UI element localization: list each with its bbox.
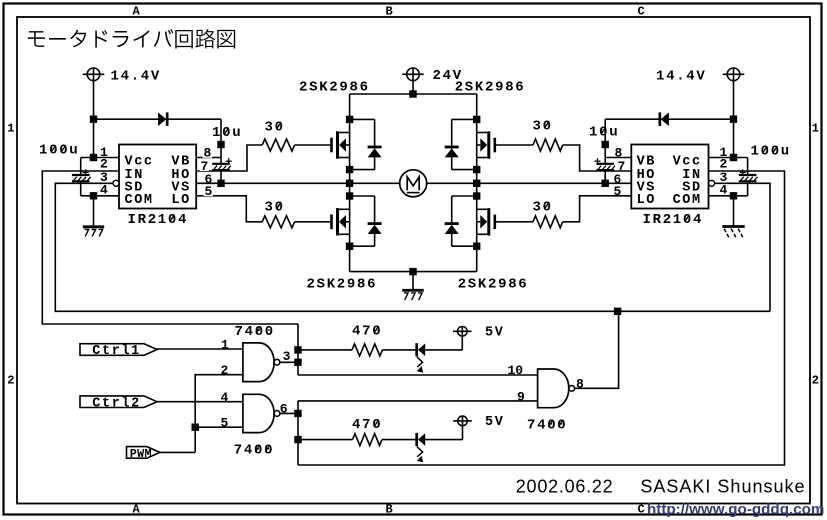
svg-text:5V: 5V: [485, 326, 505, 341]
svg-text:2SK2986: 2SK2986: [458, 277, 529, 293]
svg-text:IR2104: IR2104: [643, 212, 704, 228]
wire: LED to 5V (upper): [425, 349, 462, 351]
junction dots (all wire nodes): [90, 90, 737, 443]
svg-text:2SK2986: 2SK2986: [307, 277, 378, 293]
motor M1: [400, 170, 427, 197]
svg-text:10: 10: [508, 363, 524, 378]
label U2 IR2104: [643, 212, 704, 228]
resistor 30 (lower left gate): [262, 200, 294, 228]
svg-text:A: A: [133, 502, 141, 516]
input tag Ctrl1: [80, 344, 157, 359]
capacitor C4 100u (right): [739, 144, 791, 196]
svg-text:LO: LO: [171, 193, 190, 208]
svg-text:2: 2: [7, 374, 14, 388]
wire: HO pin7 (right) to gate resistor: [563, 145, 632, 171]
wire: Vcc pin1 (left): [81, 157, 119, 159]
wire: NAND2 node to NAND3 pin9: [298, 400, 538, 402]
wire: NAND1 output to node: [280, 361, 298, 363]
wire: Ctrl1 to NAND1 pin1: [157, 348, 243, 350]
wire: D1 cathode down to VB node: [220, 119, 222, 164]
svg-text:SASAKI Shunsuke: SASAKI Shunsuke: [640, 476, 805, 496]
svg-text:2SK2986: 2SK2986: [455, 80, 526, 96]
wire: SD pin3 (right) to SD bus: [715, 183, 770, 311]
svg-text:Vcc: Vcc: [125, 154, 154, 169]
wire: VB pin8 stub (right): [605, 157, 631, 159]
resistor 30 (upper right gate): [533, 118, 563, 151]
nand gate U3C 7400 (output): [538, 369, 575, 408]
title text モータドライバ回路図: [28, 29, 235, 48]
wire: NAND2 node vertical: [297, 401, 299, 465]
wire: NAND1 pin2 from PWM bus: [195, 375, 243, 453]
wire: C2 bottom to VS line: [220, 170, 222, 183]
svg-text:7400: 7400: [234, 442, 274, 458]
svg-text:30: 30: [533, 200, 553, 216]
wire: Vcc pin1 (right): [708, 157, 748, 159]
svg-text:COM: COM: [673, 193, 702, 208]
svg-text:Vcc: Vcc: [673, 154, 702, 169]
svg-text:http://www.go-gddq.com: http://www.go-gddq.com: [647, 501, 824, 518]
svg-text:C: C: [638, 502, 645, 516]
label 7400 (lower): [234, 442, 274, 458]
svg-text:COM: COM: [125, 193, 154, 208]
wire: resistor to LED (upper): [382, 349, 415, 351]
wire: PWM to bus: [160, 451, 195, 453]
svg-text:1: 1: [812, 122, 819, 136]
label 7400 (U3C): [527, 417, 567, 433]
pin numbers U1: [100, 145, 213, 199]
wire: COM pin4 (left): [81, 195, 119, 197]
capacitor C1 100u (left): [39, 143, 91, 196]
LED D3 (upper): [417, 343, 426, 372]
resistor 470 (lower): [352, 417, 382, 446]
power symbol 14.4V (left): [83, 68, 161, 158]
svg-text:A: A: [133, 5, 141, 19]
wire: D2 cathode down to VB node (right): [604, 119, 606, 164]
transistor Q4 2SK2986 (lower right): [445, 196, 495, 246]
resistor 30 (upper left gate): [262, 120, 294, 152]
svg-text:2SK2986: 2SK2986: [299, 80, 370, 96]
wire: left 14.4V rail to diode tap: [94, 118, 222, 120]
svg-text:2: 2: [812, 374, 819, 388]
wire: LED to 5V (lower): [425, 439, 462, 441]
wire: NAND1 node to NAND3 pin10: [298, 374, 538, 376]
svg-text:5: 5: [614, 184, 622, 199]
svg-text:470: 470: [352, 417, 382, 433]
svg-text:PWM: PWM: [130, 447, 152, 461]
wire: COM pin4 (right): [708, 195, 748, 197]
resistor 30 (lower right gate): [533, 200, 563, 228]
bootstrap diode D1 (left): [158, 112, 167, 126]
svg-text:B: B: [386, 502, 393, 516]
bootstrap diode D2 (right): [660, 112, 669, 126]
label U1 IR2104: [128, 212, 189, 228]
svg-text:Ctrl1: Ctrl1: [92, 344, 141, 359]
svg-text:7400: 7400: [235, 324, 275, 340]
wire: resistor to Q2 gate: [295, 221, 331, 223]
transistor Q2 2SK2986 (lower left): [332, 196, 382, 246]
wire: left bridge vertical: [349, 94, 351, 272]
wire: node to resistor (lower LED): [298, 439, 353, 441]
wire: resistor to LED (lower): [382, 439, 415, 441]
svg-text:IR2104: IR2104: [128, 212, 189, 228]
capacitor C3 10u (right bootstrap): [589, 125, 619, 170]
wire: VS line left of motor: [196, 182, 400, 184]
svg-text:LO: LO: [637, 193, 656, 208]
svg-text:10u: 10u: [589, 125, 619, 141]
transistor Q3 2SK2986 (upper right): [445, 119, 495, 169]
svg-text:2002.06.22: 2002.06.22: [516, 476, 614, 496]
svg-text:7400: 7400: [527, 417, 567, 433]
svg-text:14.4V: 14.4V: [656, 68, 707, 84]
svg-text:VB: VB: [637, 154, 656, 169]
capacitor C2 10u (left bootstrap): [212, 125, 242, 170]
input tag Ctrl2: [80, 396, 157, 411]
svg-text:5: 5: [221, 415, 229, 430]
pin numbers U2: [613, 145, 728, 199]
svg-text:10u: 10u: [212, 125, 242, 141]
wire: node to resistor (upper LED): [298, 349, 352, 351]
wire: LO pin5 (left) to gate resistor: [196, 196, 262, 222]
nand gate U3A 7400 (upper): [243, 343, 280, 382]
svg-text:30: 30: [265, 200, 285, 216]
svg-text:4: 4: [100, 183, 108, 198]
nand gate U3B 7400 (lower): [243, 394, 280, 432]
wire: VB pin8 stub (left): [196, 157, 221, 159]
wire: LO pin5 (right) to gate resistor: [563, 196, 632, 222]
wire: right bridge vertical: [476, 94, 478, 272]
wire: SD pin3 (left) long run to SD bus: [55, 183, 770, 311]
svg-text:2: 2: [221, 363, 229, 378]
transistor Q1 2SK2986 (upper left): [332, 119, 382, 169]
svg-text:1: 1: [221, 337, 229, 352]
svg-text:470: 470: [352, 323, 382, 339]
label 7400 (upper): [235, 324, 275, 340]
wire: 24V top rail: [350, 93, 477, 95]
svg-text:100u: 100u: [39, 143, 79, 159]
svg-text:30: 30: [265, 120, 285, 136]
power symbol 14.4V (right): [656, 68, 744, 158]
power symbol 24V (center): [402, 68, 463, 94]
svg-text:100u: 100u: [751, 144, 791, 160]
svg-text:5: 5: [205, 184, 213, 199]
svg-text:6: 6: [280, 402, 288, 417]
op-amp driver U2 IR2104 (right): [631, 145, 714, 209]
svg-text:5V: 5V: [485, 415, 505, 430]
wire: NAND2 output to node: [280, 412, 298, 414]
wire: NAND3 output to SD bus: [574, 311, 619, 388]
svg-text:9: 9: [517, 390, 525, 405]
svg-text:C: C: [638, 5, 645, 19]
svg-text:14.4V: 14.4V: [111, 68, 162, 84]
svg-text:1: 1: [7, 122, 14, 136]
wire: HO pin7 (left) to gate resistor: [196, 145, 262, 171]
ground (right IC COM): [722, 196, 744, 237]
wire: resistor to Q1 gate: [295, 144, 331, 146]
ground (H-bridge): [402, 272, 423, 300]
resistor 470 (upper): [352, 323, 382, 356]
wire: IN pin2 (left) long run to NAND1 output: [42, 171, 298, 324]
wire: right 14.4V rail to diode tap: [605, 118, 733, 120]
wire: bottom rail to ground: [350, 271, 477, 273]
svg-text:VB: VB: [171, 154, 190, 169]
power symbol 5V (lower): [453, 415, 504, 439]
wire: resistor to Q3 gate: [496, 144, 533, 146]
wire: Ctrl2 to NAND2 pin4: [157, 401, 243, 403]
svg-text:4: 4: [221, 390, 229, 405]
wire: resistor to Q4 gate: [496, 221, 533, 223]
power symbol 5V (upper): [453, 326, 505, 350]
wire: VS line right of motor: [427, 182, 631, 184]
wire: NAND2 pin5 from PWM bus: [195, 426, 243, 428]
wire: C3 bottom to VS line (right): [604, 170, 606, 183]
svg-text:30: 30: [533, 118, 553, 134]
wire: IN pin2 (right) long run to NAND2 output: [298, 171, 785, 465]
op-amp driver U1 IR2104 (left): [113, 145, 196, 209]
svg-text:Ctrl2: Ctrl2: [92, 396, 141, 411]
svg-text:B: B: [386, 5, 393, 19]
LED D4 (lower): [417, 433, 426, 462]
ground (left IC COM): [83, 196, 104, 237]
wire: NAND1 node vertical: [297, 324, 299, 375]
input tag PWM: [127, 447, 160, 461]
